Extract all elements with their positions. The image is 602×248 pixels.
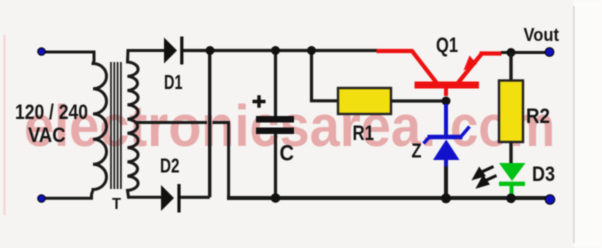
svg-text:R2: R2 (526, 105, 550, 128)
wire input top (45, 52, 95, 61)
transformer T primary winding (92, 60, 107, 199)
wire emitter to Vout (501, 51, 546, 54)
wire ground rail (227, 196, 546, 200)
svg-text:VAC: VAC (28, 124, 66, 147)
wire Q1 base stub (444, 88, 448, 96)
zener Z bar (428, 135, 463, 139)
wire center tap (136, 121, 208, 124)
transformer secondary winding (128, 51, 165, 198)
wire D2 cathode (181, 196, 210, 199)
node D3 ground (506, 194, 516, 204)
wire R2 to D3 (509, 142, 512, 164)
terminal Vout (545, 48, 554, 57)
wire R2 top lead (509, 53, 512, 82)
diode D1 (164, 38, 177, 64)
node zener ground (441, 193, 451, 203)
wire R1 to base node (391, 99, 446, 102)
led D3 emission arrow upper (475, 167, 494, 179)
led D3 anode lead (510, 185, 514, 195)
zener Z bar right hook (462, 127, 470, 137)
wire input bottom (45, 195, 92, 198)
transistor Q1 emitter lead (457, 54, 502, 85)
svg-text:R1: R1 (353, 122, 375, 145)
node Vout (507, 48, 516, 57)
led D3 bar (499, 182, 525, 186)
terminal ground right (545, 195, 555, 205)
svg-text:T: T (112, 196, 121, 213)
transistor Q1 collector lead (377, 51, 438, 84)
wire rectifier join vertical (208, 51, 211, 198)
led D3 triangle (499, 163, 526, 181)
zener Z cathode lead (444, 104, 448, 137)
svg-text:Vout: Vout (524, 25, 560, 45)
svg-text:D3: D3 (532, 163, 555, 186)
svg-text:120 / 240: 120 / 240 (15, 101, 88, 124)
terminal input bottom (38, 195, 46, 203)
svg-text:D2: D2 (160, 156, 180, 178)
terminal input top (38, 48, 46, 56)
capacitor plus sign (253, 95, 266, 107)
transformer core (111, 62, 121, 189)
svg-text:Q1: Q1 (436, 34, 458, 57)
resistor R1 (338, 88, 391, 114)
transistor Q1 emitter arrow (464, 56, 478, 71)
svg-text:Z: Z (412, 141, 422, 163)
svg-text:C: C (280, 141, 295, 166)
node R1 top (307, 46, 316, 55)
resistor R2 (499, 81, 523, 143)
diode D2 (161, 185, 174, 211)
node rectifier output (206, 46, 215, 55)
wire top rail (183, 49, 377, 52)
zener Z bar left hook (424, 138, 429, 144)
led D3 emission arrow lower (479, 176, 497, 187)
capacitor C (274, 51, 277, 117)
wire R1 branch (312, 51, 339, 101)
transistor Q1 base bar (415, 82, 480, 89)
zener Z anode lead (444, 160, 448, 167)
svg-text:D1: D1 (164, 72, 183, 94)
zener Z triangle (433, 140, 460, 161)
node base (442, 97, 451, 106)
